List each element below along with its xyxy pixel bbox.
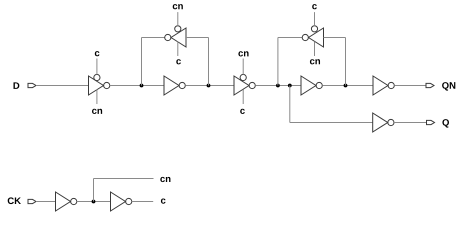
inverter U10 (clock inverter cn to c) [111, 192, 132, 211]
junction node s1 Q-branch tap [288, 84, 292, 88]
wire U9 output to node cn [77, 201, 111, 203]
wire U1 bottom control cn [96, 90, 98, 105]
wire node m2 feedback riser [208, 38, 210, 86]
inverter U8 (Q output driver) [373, 113, 394, 132]
junction node cn [92, 200, 96, 204]
wire node m2 to U3 input [186, 37, 209, 39]
wire U1 output to node m1 [110, 85, 164, 87]
junction node m2 [207, 84, 211, 88]
label cn (U4 top control) [238, 51, 248, 56]
wire U4 bottom control c [242, 90, 244, 105]
wire U3 bottom control c [177, 42, 179, 57]
label cn (net cn) [160, 177, 170, 182]
inverter U5 (slave forward) [301, 76, 322, 95]
label D [14, 82, 20, 89]
output pin Q [427, 120, 435, 124]
label Q [442, 119, 449, 128]
wire U5 output to node s2 [322, 85, 373, 87]
inverter U7 (QN output driver) [373, 76, 394, 95]
label c (net c) [161, 198, 166, 203]
wire net cn riser [93, 179, 95, 202]
wire U6 output to node s1 [278, 37, 302, 39]
input pin D [28, 83, 36, 87]
label QN [442, 82, 455, 91]
wire U7 output to pin QN [394, 85, 426, 87]
tri-state inverter U3 (master feedback) [165, 26, 186, 47]
inverter U9 (clock inverter CK to cn) [56, 192, 77, 211]
label c (U6 top control) [312, 4, 317, 9]
label CK [8, 197, 21, 204]
label c (U1 top control) [95, 51, 100, 56]
input pin CK [28, 199, 36, 203]
wire node s1 feedback riser [277, 38, 279, 86]
wire U10 output to net c [132, 201, 153, 203]
wire U3 top control cn [177, 12, 179, 26]
output pin QN [426, 83, 434, 87]
wire node s2 to U6 input [324, 37, 346, 39]
wire net cn stub [94, 178, 154, 180]
wire U1 top control c [96, 59, 98, 75]
wire Q-branch to U8 input [290, 122, 373, 124]
tri-state inverter U4 (slave input gate) [234, 74, 255, 95]
label cn (U3 top control) [173, 4, 183, 9]
label c (U3 bottom control) [176, 59, 181, 64]
wire node m1 feedback riser [141, 38, 143, 86]
wire U8 output to pin Q [394, 122, 427, 124]
wire U6 bottom control cn [314, 42, 316, 57]
wire D to U1 input [36, 85, 89, 87]
wire Q-branch drop [289, 86, 291, 123]
label c (U4 bottom control) [240, 109, 245, 114]
wire U2 output to node m2 [185, 85, 234, 87]
label cn (U6 bottom control) [310, 59, 320, 64]
junction node s2 [344, 84, 348, 88]
wire U6 top control c [314, 12, 316, 26]
wire U4 output to node s1 [255, 85, 301, 87]
label cn (U1 bottom control) [92, 109, 102, 114]
wire CK to U9 input [36, 201, 56, 203]
wire U4 top control cn [242, 59, 244, 75]
wire node s2 feedback riser [345, 38, 347, 86]
junction node m1 [140, 84, 144, 88]
tri-state inverter U1 (master input gate) [89, 74, 110, 95]
inverter U2 (master forward) [164, 76, 185, 95]
tri-state inverter U6 (slave feedback) [302, 26, 323, 47]
wire U3 output to node m1 [142, 37, 165, 39]
junction node s1 [276, 84, 280, 88]
